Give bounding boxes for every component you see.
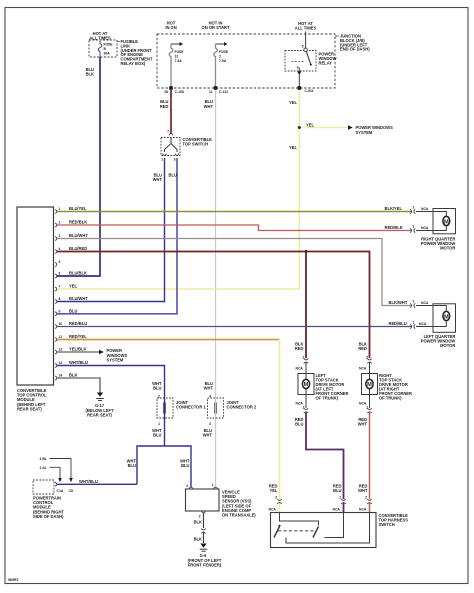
svg-text:3 BL: 3 BL: [40, 457, 47, 461]
svg-text:YEL: YEL: [289, 145, 297, 150]
svg-text:M: M: [444, 219, 449, 225]
module pin 13 wire WHT/BLU down to joint connector 1: [57, 366, 165, 399]
wire YEL from relay connector down to module pin 7 row: [57, 90, 299, 289]
wire RED/YEL vertical (pale yellow) down to switch: [279, 340, 281, 500]
svg-text:3: 3: [297, 66, 299, 70]
svg-text:98I9F2: 98I9F2: [8, 578, 19, 582]
svg-text:6: 6: [59, 272, 61, 276]
inline connector on BLK wire: [201, 529, 205, 530]
svg-text:SYSTEM: SYSTEM: [107, 357, 124, 362]
wire BLU/BLK from fusible link down then left to module pin 6: [57, 57, 100, 276]
relay switch arm: [306, 52, 310, 64]
ground G-6: [200, 544, 206, 548]
wire BLU/WHT from fuse 2 down to joint connector 2 (light gray): [215, 90, 217, 398]
svg-text:RED: RED: [160, 104, 169, 109]
svg-text:CONNECTOR 1: CONNECTOR 1: [176, 405, 206, 410]
wire BLK to ground G-6: [203, 513, 205, 528]
svg-text:30A: 30A: [104, 51, 111, 55]
svg-text:YEL: YEL: [306, 122, 314, 127]
label JUNCTION BLOCK: [335, 35, 339, 37]
svg-text:3: 3: [209, 422, 211, 426]
wire RED/BLU (purple) to switch: [306, 413, 344, 500]
svg-text:YEL: YEL: [289, 100, 297, 105]
svg-text:REAR SEAT): REAR SEAT): [87, 412, 112, 417]
svg-text:BLK: BLK: [194, 519, 202, 524]
svg-text:2: 2: [413, 300, 415, 304]
svg-text:BLU: BLU: [295, 421, 303, 426]
svg-text:NCA: NCA: [359, 367, 367, 371]
svg-text:FRONT FENDER): FRONT FENDER): [188, 562, 222, 567]
svg-text:REAR SEAT): REAR SEAT): [17, 406, 42, 411]
arrow to POWER WINDOWS SYSTEM (top): [348, 125, 353, 130]
svg-text:3: 3: [59, 234, 61, 238]
wire BLU switch block to module pin 9: [57, 158, 177, 314]
svg-text:RELAY: RELAY: [319, 61, 333, 66]
svg-text:1: 1: [413, 321, 415, 325]
svg-text:BLK/YEL: BLK/YEL: [385, 206, 403, 211]
wire from switch 1 side to RED/WHT entry: [286, 513, 370, 544]
svg-text:WHT: WHT: [358, 488, 368, 493]
fuse 12 7.5A: [171, 43, 180, 45]
svg-text:NCA: NCA: [419, 322, 427, 326]
svg-text:NCA: NCA: [421, 226, 429, 230]
Y split inside: [170, 138, 172, 144]
svg-text:5: 5: [302, 45, 304, 49]
svg-text:12: 12: [175, 54, 179, 58]
svg-text:ON OR START: ON OR START: [202, 25, 230, 30]
svg-text:7: 7: [59, 285, 61, 289]
svg-text:YEL: YEL: [69, 284, 77, 289]
svg-text:WHT: WHT: [204, 104, 214, 109]
switch internals: [280, 513, 319, 526]
svg-text:12: 12: [59, 348, 63, 352]
module pin 3 wire BLU/WHT to left quarter motor: [57, 239, 411, 306]
wire into relay: [305, 32, 307, 49]
svg-text:IN ON: IN ON: [165, 25, 176, 30]
svg-text:BLU/RED: BLU/RED: [69, 246, 87, 251]
svg-text:BLU: BLU: [69, 308, 77, 313]
svg-text:NCA: NCA: [333, 508, 341, 512]
svg-text:BLK: BLK: [69, 373, 77, 378]
svg-text:3: 3: [174, 158, 176, 162]
svg-text:FUSE: FUSE: [104, 43, 114, 47]
svg-text:RED/BLK: RED/BLK: [385, 225, 403, 230]
svg-text:4: 4: [59, 247, 61, 251]
svg-text:5: 5: [59, 260, 61, 264]
module pins 1-14 (arcs and numbers): [55, 210, 57, 380]
svg-text:2: 2: [413, 206, 415, 210]
motor box: [433, 304, 456, 333]
svg-text:MOTOR: MOTOR: [440, 246, 455, 251]
svg-text:28: 28: [164, 90, 168, 94]
svg-text:NCA: NCA: [421, 301, 429, 305]
wire WHT/BLU below JC1 with splice split: [164, 418, 166, 446]
svg-text:RED: RED: [295, 346, 304, 351]
svg-text:WHT: WHT: [204, 386, 214, 391]
svg-text:BLK/WHT: BLK/WHT: [389, 300, 408, 305]
svg-text:BLU: BLU: [169, 173, 177, 178]
svg-text:1: 1: [339, 496, 341, 500]
svg-text:M: M: [367, 382, 372, 388]
wire WHT/BLU into PCM: [57, 483, 137, 485]
svg-text:WHT: WHT: [153, 177, 163, 182]
svg-text:3: 3: [186, 484, 188, 488]
svg-text:FUSE: FUSE: [219, 50, 229, 54]
svg-text:WHT/BLU: WHT/BLU: [69, 360, 88, 365]
node junction dot on BLU/RED: [305, 250, 308, 253]
svg-text:RED/BLK: RED/BLK: [69, 220, 87, 225]
module pin 4 wire BLU/RED to top stack drive motors: [57, 252, 370, 359]
ground G-17: [97, 393, 103, 397]
svg-text:BLU/YEL: BLU/YEL: [69, 206, 87, 211]
fuse 2 7.5A: [216, 43, 225, 45]
relay dashed actuator link: [292, 61, 305, 63]
svg-text:C-108: C-108: [175, 90, 184, 94]
svg-text:FUSE: FUSE: [175, 50, 185, 54]
svg-text:M: M: [304, 382, 309, 388]
fusible link element: [98, 41, 102, 57]
relay bottom terminal: [298, 68, 300, 72]
svg-text:NCA: NCA: [421, 207, 429, 211]
svg-text:YEL/BLK: YEL/BLK: [69, 347, 87, 352]
svg-text:RED/BLU: RED/BLU: [69, 321, 87, 326]
svg-text:2: 2: [365, 496, 367, 500]
svg-text:BLU: BLU: [128, 463, 136, 468]
svg-text:RED/BLU: RED/BLU: [389, 321, 407, 326]
svg-text:BLU: BLU: [153, 433, 161, 438]
svg-text:C-112: C-112: [219, 90, 228, 94]
svg-text:OF TRUNK): OF TRUNK): [316, 396, 339, 401]
svg-text:1: 1: [59, 207, 61, 211]
svg-text:NCA: NCA: [296, 367, 304, 371]
connector C-108: [169, 86, 173, 90]
svg-text:NCA: NCA: [269, 508, 277, 512]
node: YEL junction dot: [298, 126, 301, 129]
svg-text:BLK: BLK: [86, 72, 94, 77]
svg-text:2: 2: [219, 54, 221, 58]
svg-text:11: 11: [59, 335, 63, 339]
svg-text:C8: C8: [69, 489, 73, 493]
module pin 1 wire BLU/YEL to right quarter motor: [57, 211, 411, 213]
svg-text:BLU/WHT: BLU/WHT: [69, 296, 88, 301]
svg-text:WHT: WHT: [203, 433, 213, 438]
svg-text:C-811: C-811: [305, 89, 314, 93]
svg-text:7: 7: [167, 130, 169, 134]
wire RED/WHT to switch: [369, 413, 371, 500]
module pin 14 wire BLK to ground G-17: [57, 378, 100, 393]
svg-text:C1A: C1A: [57, 489, 64, 493]
svg-text:1: 1: [413, 225, 415, 229]
svg-text:9: 9: [59, 310, 61, 314]
svg-text:13: 13: [59, 361, 63, 365]
module pin 2 wire RED/BLK to right quarter motor: [57, 225, 411, 231]
svg-text:BLK: BLK: [194, 536, 202, 541]
svg-text:2: 2: [59, 221, 61, 225]
switch arm 2: [313, 527, 319, 538]
svg-text:OF TRUNK): OF TRUNK): [379, 396, 402, 401]
svg-text:M: M: [444, 314, 449, 320]
svg-text:ALL TIMES: ALL TIMES: [295, 26, 317, 31]
svg-text:BLU: BLU: [333, 488, 341, 493]
connector C-811: [298, 86, 302, 90]
svg-text:BLU: BLU: [181, 463, 189, 468]
svg-text:10: 10: [59, 322, 63, 326]
svg-text:2: 2: [199, 515, 201, 519]
svg-text:RELAY BOX): RELAY BOX): [121, 61, 146, 66]
svg-text:SYSTEM: SYSTEM: [356, 130, 373, 135]
svg-text:2 AL: 2 AL: [40, 466, 47, 470]
switch box: [271, 513, 377, 548]
svg-text:SIDE OF DASH): SIDE OF DASH): [33, 514, 64, 519]
dashed mechanical link: [278, 530, 316, 532]
svg-text:1: 1: [212, 483, 214, 487]
svg-text:RED: RED: [358, 346, 367, 351]
motor box: [433, 209, 456, 234]
wire YEL branch to power windows system: [299, 127, 348, 129]
svg-text:11: 11: [209, 90, 213, 94]
wire BLU/RED fuse 12 to convertible top switch block: [170, 90, 172, 134]
wire branch BLK/RED down to left top stack motor: [305, 252, 307, 359]
svg-text:SWITCH: SWITCH: [379, 522, 395, 527]
svg-text:ON TRANSAXLE): ON TRANSAXLE): [222, 513, 256, 518]
svg-text:1: 1: [161, 158, 163, 162]
switch arm 1: [274, 527, 280, 538]
module pin 12 wire YEL/BLK to power windows system arrow: [57, 351, 99, 353]
svg-text:7.5A: 7.5A: [175, 59, 183, 63]
module pin 11 wire RED/YEL to convertible top harness switch: [57, 339, 280, 341]
svg-text:TOP SWITCH: TOP SWITCH: [183, 141, 209, 146]
svg-text:14: 14: [59, 374, 63, 378]
wire BLU/WHT switch block to module pin 8: [57, 158, 165, 302]
svg-text:WHT/BLU: WHT/BLU: [79, 479, 98, 484]
svg-text:BLU: BLU: [153, 386, 161, 391]
wire from switch 2 to RED/BLU entry: [325, 513, 344, 538]
svg-text:MOTOR: MOTOR: [440, 343, 455, 348]
svg-text:7.5A: 7.5A: [219, 59, 227, 63]
svg-text:BLU/WHT: BLU/WHT: [69, 233, 88, 238]
relay contact: [304, 48, 308, 52]
svg-text:2: 2: [275, 496, 277, 500]
module pin 10 wire RED/BLU to left quarter motor: [57, 326, 411, 328]
svg-text:WHT: WHT: [358, 421, 368, 426]
svg-text:BLU/BLK: BLU/BLK: [69, 271, 87, 276]
svg-text:8: 8: [59, 297, 61, 301]
svg-text:END OF DASH): END OF DASH): [340, 47, 370, 52]
connector C-112: [214, 86, 218, 90]
svg-text:NCA: NCA: [359, 508, 367, 512]
wire BLU/WHT joint connector 2 to VSS pin 1: [215, 418, 217, 488]
svg-text:YEL: YEL: [270, 488, 278, 493]
svg-text:CONNECTOR 2: CONNECTOR 2: [227, 405, 257, 410]
svg-text:1: 1: [158, 422, 160, 426]
svg-text:RED/YEL: RED/YEL: [69, 334, 87, 339]
